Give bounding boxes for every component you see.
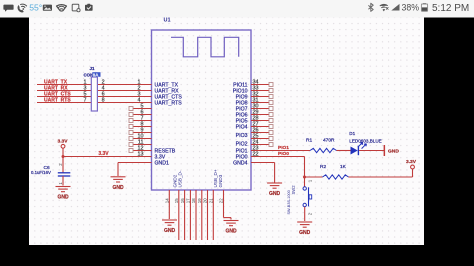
svg-text:CON: CON	[84, 72, 94, 77]
svg-text:22: 22	[219, 198, 224, 203]
svg-text:D1: D1	[349, 131, 355, 136]
svg-text:PIO2: PIO2	[236, 141, 248, 147]
svg-text:GND: GND	[112, 185, 124, 191]
svg-text:3.3V: 3.3V	[98, 151, 109, 157]
svg-text:38%: 38%	[402, 3, 420, 13]
svg-text:20: 20	[203, 198, 208, 203]
svg-text:GND: GND	[225, 229, 237, 235]
svg-text:17: 17	[186, 198, 191, 203]
svg-text:GND3: GND3	[218, 174, 223, 187]
svg-text:5:12 PM: 5:12 PM	[432, 3, 469, 14]
svg-text:21: 21	[209, 198, 214, 203]
svg-text:UART_RTS: UART_RTS	[155, 100, 183, 106]
svg-text:J1: J1	[90, 66, 95, 71]
svg-text:SW-B3S-1000: SW-B3S-1000	[287, 190, 291, 214]
svg-text:GND: GND	[57, 195, 69, 201]
svg-text:LED0603,BLUE: LED0603,BLUE	[349, 139, 381, 144]
svg-text:16: 16	[180, 198, 185, 203]
svg-text:3.3V: 3.3V	[406, 159, 417, 165]
svg-text:GND4: GND4	[233, 160, 248, 166]
svg-text:8A: 8A	[93, 72, 99, 77]
svg-text:U1: U1	[164, 18, 171, 24]
svg-text:GND: GND	[269, 191, 281, 197]
svg-text:1K: 1K	[340, 164, 347, 170]
svg-text:GND: GND	[299, 230, 311, 236]
svg-text:14: 14	[165, 198, 170, 203]
svg-text:3.3V: 3.3V	[57, 138, 68, 144]
svg-text:55°: 55°	[29, 3, 42, 13]
svg-text:GND: GND	[164, 228, 176, 234]
svg-text:R1: R1	[306, 137, 312, 143]
svg-text:PIO3: PIO3	[236, 133, 248, 139]
svg-text:USB_D-: USB_D-	[178, 170, 183, 187]
svg-text:SW2: SW2	[291, 185, 296, 195]
svg-text:PIO0: PIO0	[236, 154, 248, 160]
svg-text:GND: GND	[388, 149, 399, 155]
svg-text:8: 8	[102, 98, 105, 104]
svg-text:470R: 470R	[323, 137, 335, 143]
svg-text:18: 18	[191, 198, 196, 203]
svg-text:7: 7	[84, 98, 87, 104]
svg-text:PIO4: PIO4	[236, 124, 248, 130]
svg-text:UART_RTS: UART_RTS	[44, 98, 71, 104]
svg-text:0.1uF/16V: 0.1uF/16V	[31, 170, 51, 175]
svg-text:19: 19	[197, 198, 202, 203]
svg-text:15: 15	[174, 198, 179, 203]
svg-text:R2: R2	[320, 164, 326, 170]
svg-text:GND1: GND1	[155, 160, 170, 166]
